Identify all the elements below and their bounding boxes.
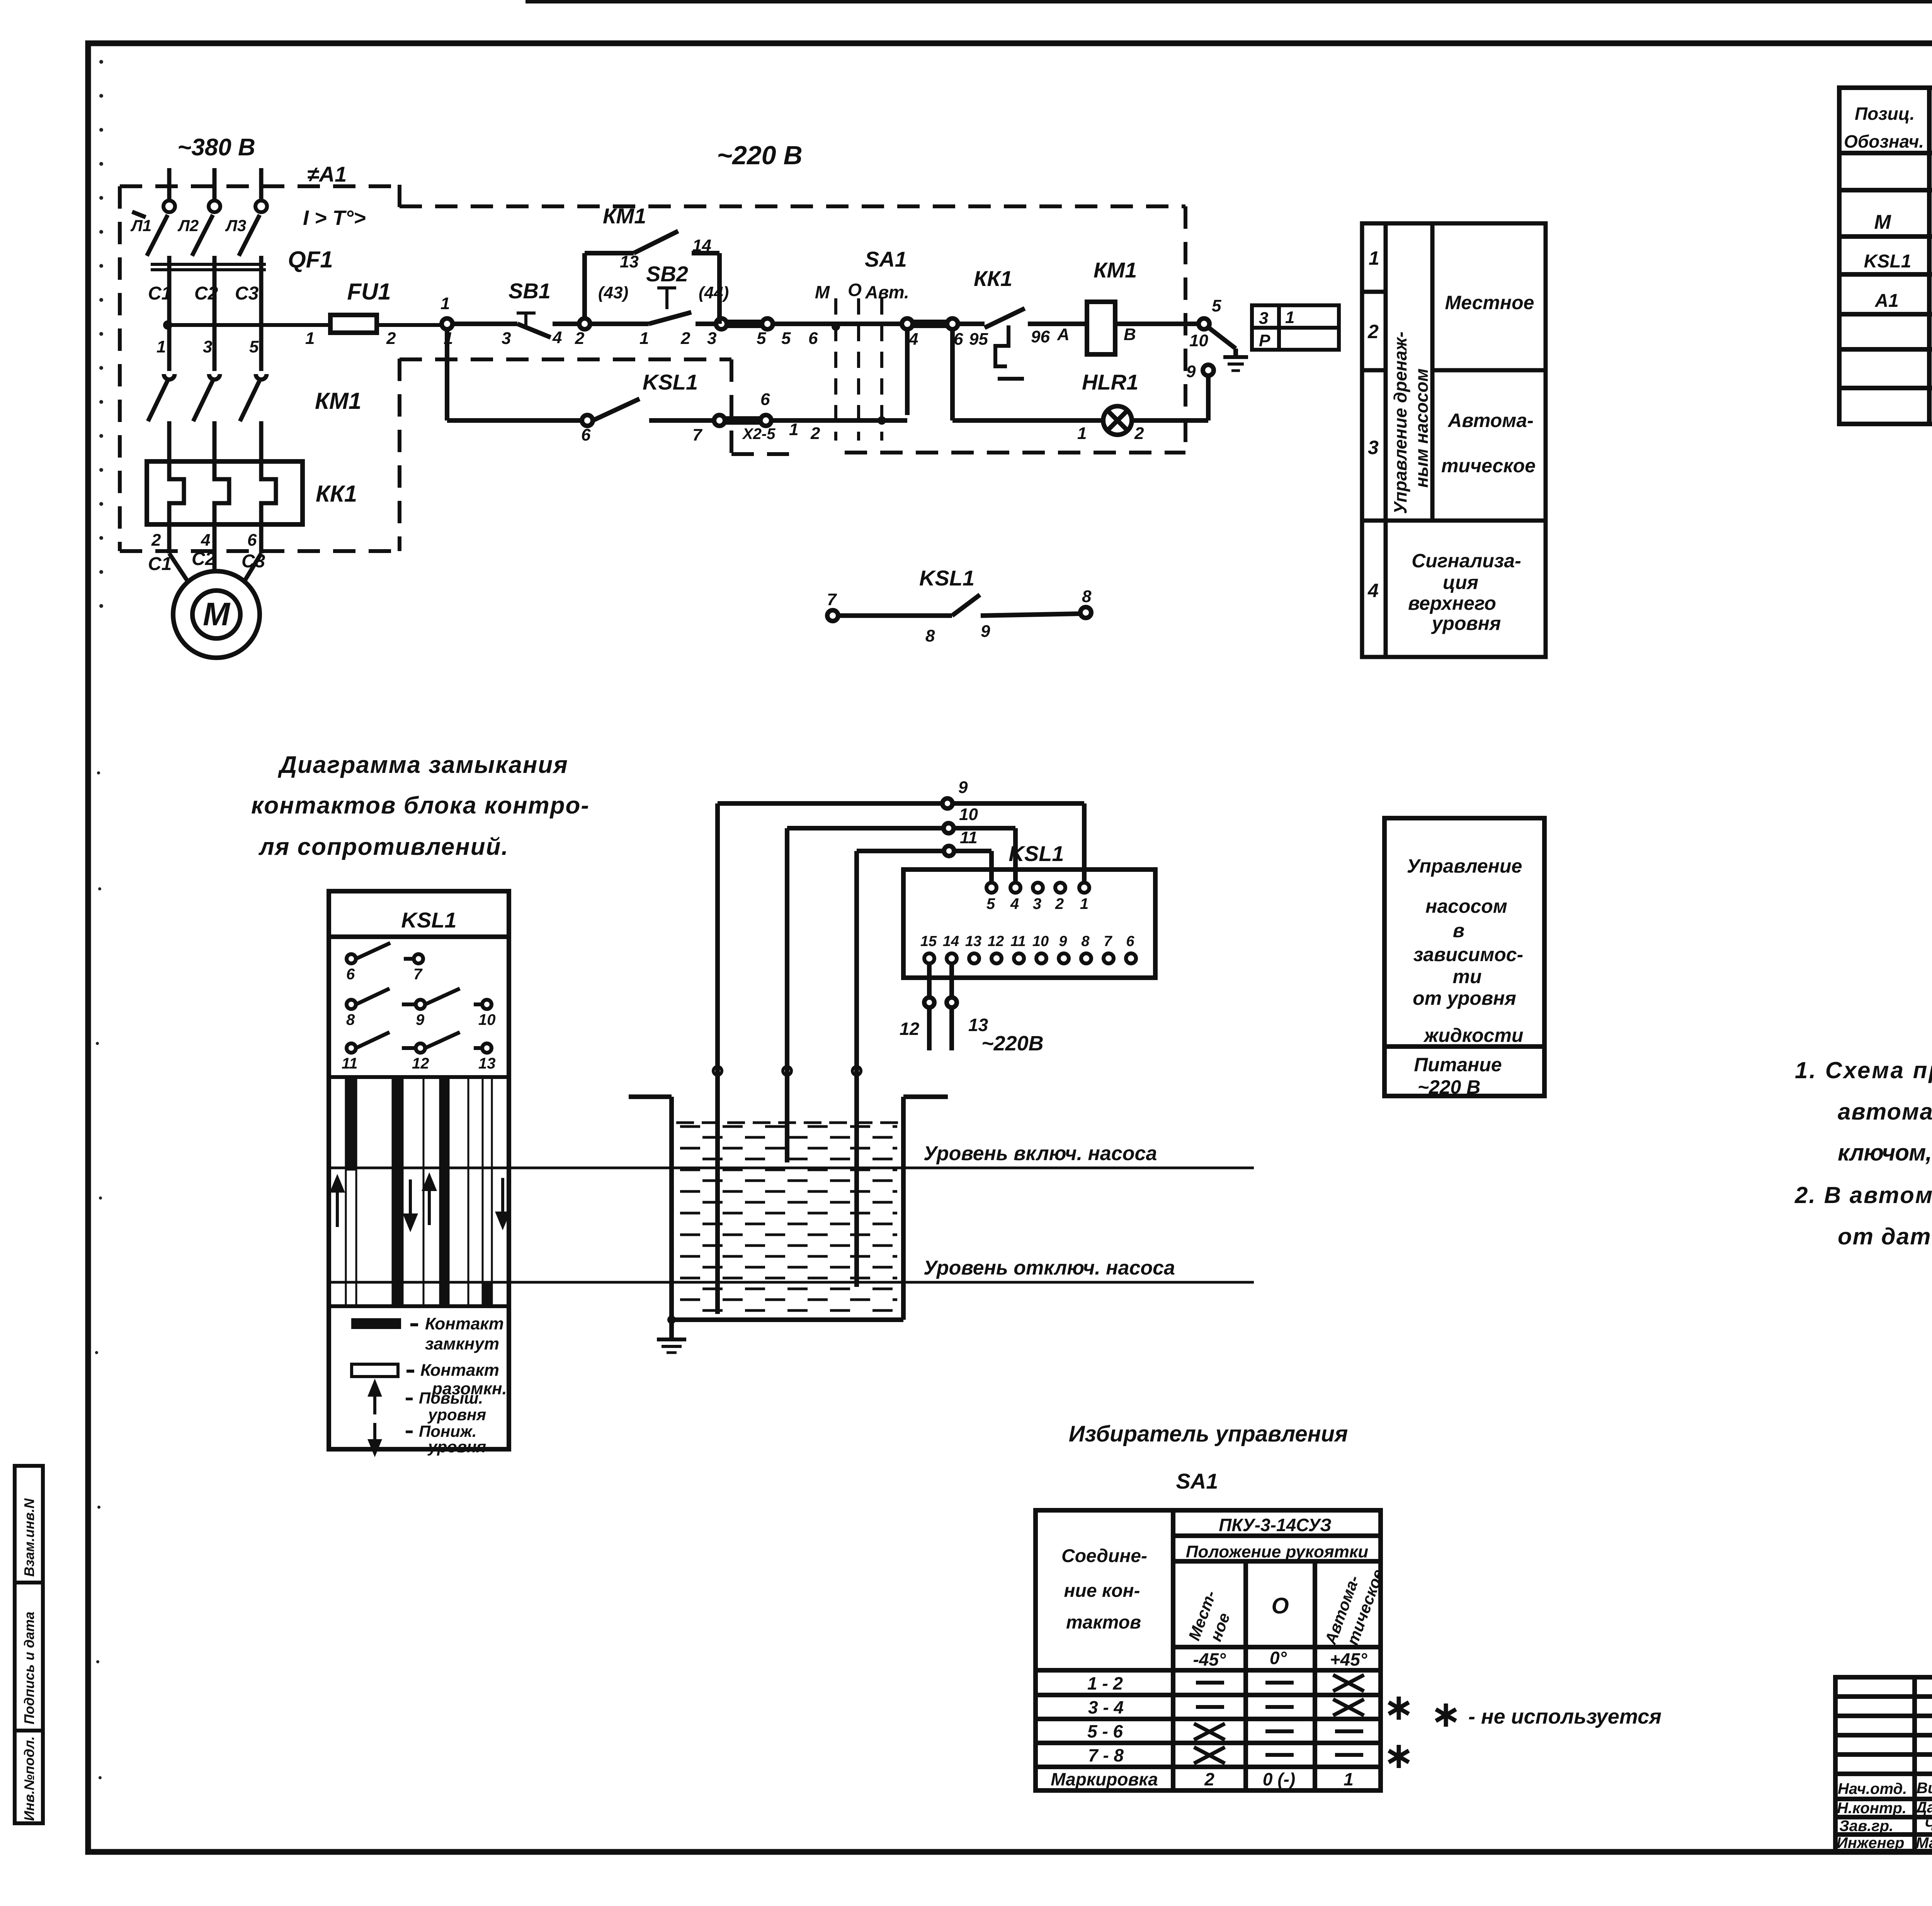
- svg-text:5: 5: [986, 895, 995, 912]
- svg-text:4: 4: [908, 330, 918, 349]
- svg-text:5: 5: [757, 329, 766, 348]
- svg-text:В: В: [1124, 325, 1136, 344]
- svg-text:М: М: [203, 596, 231, 632]
- svg-text:О: О: [848, 280, 862, 300]
- svg-text:13: 13: [620, 252, 639, 271]
- svg-text:ция: ция: [1443, 572, 1478, 593]
- svg-text:зависимос-: зависимос-: [1413, 944, 1523, 965]
- svg-text:96: 96: [1031, 327, 1050, 346]
- svg-text:1. Схема предусматривает уп: 1. Схема предусматривает управление насо…: [1795, 1057, 1932, 1083]
- svg-text:2: 2: [151, 531, 161, 550]
- svg-text:- не используется: - не используется: [1468, 1705, 1662, 1728]
- svg-text:6: 6: [581, 425, 591, 444]
- svg-text:Инженер: Инженер: [1837, 1835, 1904, 1852]
- svg-text:11: 11: [1010, 933, 1026, 950]
- svg-text:1: 1: [1080, 895, 1088, 912]
- svg-text:1: 1: [789, 420, 798, 439]
- svg-text:Управление: Управление: [1407, 855, 1522, 877]
- svg-text:ние кон-: ние кон-: [1064, 1581, 1140, 1601]
- svg-text:2: 2: [1367, 321, 1379, 342]
- svg-text:5: 5: [781, 329, 791, 348]
- svg-text:1: 1: [1077, 424, 1087, 443]
- svg-text:Чаруева: Чаруева: [1924, 1817, 1932, 1834]
- svg-text:3: 3: [1033, 895, 1041, 912]
- svg-text:от датчика уровня KSL1.: от датчика уровня KSL1.: [1838, 1224, 1932, 1249]
- svg-text:10: 10: [478, 1011, 496, 1028]
- svg-text:0°: 0°: [1270, 1648, 1287, 1668]
- svg-text:Подпись и дата: Подпись и дата: [21, 1612, 37, 1724]
- svg-text:контактов блока контро-: контактов блока контро-: [251, 792, 590, 819]
- svg-text:3: 3: [707, 329, 716, 348]
- svg-text:Уровень включ. насоса: Уровень включ. насоса: [923, 1142, 1157, 1165]
- svg-text:HLR1: HLR1: [1082, 370, 1138, 394]
- svg-text:Л2: Л2: [177, 216, 199, 235]
- svg-text:95: 95: [969, 330, 988, 349]
- svg-text:KSL1: KSL1: [1009, 841, 1064, 866]
- svg-text:4: 4: [552, 328, 562, 347]
- svg-text:Сигнализа-: Сигнализа-: [1412, 550, 1521, 572]
- svg-text:13: 13: [478, 1055, 496, 1072]
- svg-text:Избиратель управления: Избиратель управления: [1069, 1421, 1348, 1447]
- svg-text:I > T°>: I > T°>: [303, 206, 366, 230]
- svg-text:4: 4: [201, 531, 210, 550]
- svg-text:КМ1: КМ1: [315, 388, 361, 414]
- svg-text:ключом, установленным на ящи: ключом, установленным на ящике управлени…: [1838, 1140, 1932, 1166]
- svg-text:(43): (43): [598, 283, 628, 302]
- svg-text:-45°: -45°: [1193, 1649, 1226, 1669]
- svg-text:Местное: Местное: [1445, 292, 1534, 313]
- svg-text:1: 1: [1344, 1769, 1354, 1789]
- svg-text:5 - 6: 5 - 6: [1087, 1721, 1123, 1741]
- svg-text:С1: С1: [148, 554, 172, 574]
- svg-text:насосом: насосом: [1425, 895, 1507, 917]
- svg-text:9: 9: [1059, 933, 1067, 950]
- svg-text:ным насосом: ным насосом: [1412, 368, 1432, 488]
- svg-text:1: 1: [444, 329, 453, 348]
- svg-text:(44): (44): [699, 283, 729, 302]
- svg-text:КМ1: КМ1: [1094, 258, 1137, 282]
- svg-text:ля сопротивлений.: ля сопротивлений.: [258, 834, 509, 860]
- svg-text:4: 4: [1010, 895, 1019, 912]
- svg-text:≠А1: ≠А1: [307, 162, 347, 186]
- svg-text:2: 2: [1134, 424, 1144, 443]
- svg-text:9: 9: [981, 622, 990, 641]
- svg-text:С3: С3: [235, 283, 259, 304]
- svg-text:от уровня: от уровня: [1413, 987, 1516, 1009]
- svg-text:А: А: [1057, 325, 1070, 344]
- svg-text:3: 3: [502, 329, 511, 348]
- svg-text:уровня: уровня: [427, 1406, 486, 1424]
- svg-text:тактов: тактов: [1066, 1612, 1141, 1633]
- svg-text:Н.контр.: Н.контр.: [1837, 1800, 1906, 1817]
- svg-text:+45°: +45°: [1330, 1649, 1367, 1669]
- svg-text:2: 2: [1055, 895, 1064, 912]
- svg-text:9: 9: [1186, 362, 1196, 381]
- svg-text:6: 6: [954, 330, 963, 349]
- svg-text:3: 3: [1368, 437, 1379, 458]
- svg-text:Магулария: Магулария: [1916, 1835, 1932, 1852]
- svg-text:верхнего: верхнего: [1408, 592, 1496, 614]
- svg-text:ПКУ-3-14СУЗ: ПКУ-3-14СУЗ: [1219, 1515, 1331, 1535]
- svg-text:Положение рукоятки: Положение рукоятки: [1186, 1542, 1368, 1561]
- svg-text:7: 7: [827, 590, 837, 609]
- svg-text:0 (-): 0 (-): [1263, 1769, 1295, 1789]
- svg-text:Нач.отд.: Нач.отд.: [1838, 1780, 1907, 1797]
- svg-text:8: 8: [346, 1011, 355, 1028]
- svg-text:Взам.инв.N: Взам.инв.N: [21, 1498, 37, 1577]
- svg-text:SB2: SB2: [646, 262, 688, 286]
- svg-text:14: 14: [943, 933, 959, 950]
- svg-text:7: 7: [413, 966, 423, 983]
- svg-text:~220 В: ~220 В: [1418, 1076, 1481, 1098]
- svg-text:1: 1: [305, 329, 315, 348]
- svg-text:КМ1: КМ1: [603, 204, 646, 228]
- svg-text:KSL1: KSL1: [643, 370, 698, 394]
- svg-text:12: 12: [412, 1055, 429, 1072]
- svg-text:Питание: Питание: [1414, 1054, 1502, 1076]
- svg-text:14: 14: [692, 236, 711, 255]
- svg-text:Повыш.: Повыш.: [419, 1389, 483, 1407]
- svg-text:жидкости: жидкости: [1423, 1024, 1524, 1046]
- svg-text:Вишневский: Вишневский: [1917, 1780, 1932, 1797]
- svg-text:~220 В: ~220 В: [717, 141, 802, 170]
- svg-text:С2: С2: [194, 283, 218, 304]
- svg-text:2: 2: [680, 329, 690, 348]
- svg-text:уровня: уровня: [1431, 613, 1501, 634]
- svg-text:2: 2: [1204, 1769, 1214, 1789]
- svg-text:KSL1: KSL1: [401, 908, 456, 932]
- svg-text:X2-5: X2-5: [742, 425, 776, 442]
- svg-text:4: 4: [1367, 580, 1379, 601]
- svg-text:С3: С3: [241, 551, 265, 572]
- svg-text:11: 11: [342, 1055, 358, 1072]
- svg-text:~220В: ~220В: [981, 1032, 1044, 1055]
- svg-text:1: 1: [639, 329, 649, 348]
- svg-text:6: 6: [346, 966, 355, 983]
- svg-text:КК1: КК1: [974, 266, 1012, 291]
- svg-text:ти: ти: [1453, 966, 1482, 987]
- svg-text:в: в: [1453, 920, 1464, 941]
- svg-text:Л3: Л3: [225, 216, 246, 235]
- svg-text:2: 2: [575, 329, 585, 348]
- svg-text:Контакт: Контакт: [420, 1361, 499, 1380]
- svg-text:KSL1: KSL1: [1864, 251, 1912, 272]
- svg-text:Уровень отключ. насоса: Уровень отключ. насоса: [923, 1257, 1175, 1279]
- svg-text:тическое: тическое: [1441, 455, 1536, 476]
- svg-text:6: 6: [760, 390, 770, 409]
- svg-text:Зав.гр.: Зав.гр.: [1839, 1818, 1893, 1835]
- svg-text:7: 7: [692, 425, 703, 444]
- svg-text:SA1: SA1: [1176, 1469, 1218, 1493]
- svg-text:Соедине-: Соедине-: [1061, 1546, 1147, 1566]
- svg-text:12: 12: [900, 1019, 920, 1039]
- svg-text:1: 1: [1285, 308, 1294, 327]
- svg-text:Р: Р: [1259, 331, 1270, 350]
- svg-text:С1: С1: [148, 283, 172, 304]
- svg-text:~380 В: ~380 В: [177, 134, 255, 161]
- svg-text:7: 7: [1104, 933, 1112, 950]
- svg-text:А1: А1: [1874, 291, 1898, 311]
- svg-text:FU1: FU1: [347, 279, 391, 305]
- svg-text:1: 1: [440, 294, 450, 313]
- svg-text:13: 13: [965, 933, 981, 950]
- svg-text:3 - 4: 3 - 4: [1088, 1697, 1124, 1717]
- svg-text:10: 10: [959, 805, 978, 824]
- svg-text:Давлианидзе: Давлианидзе: [1915, 1799, 1932, 1816]
- svg-text:6: 6: [247, 531, 257, 550]
- svg-text:6: 6: [808, 329, 818, 348]
- svg-text:Позиц.: Позиц.: [1855, 104, 1915, 124]
- svg-text:уровня: уровня: [427, 1438, 486, 1456]
- svg-text:2: 2: [810, 424, 820, 443]
- svg-text:9: 9: [416, 1011, 425, 1028]
- svg-text:Л1: Л1: [130, 216, 151, 235]
- svg-text:Автома-: Автома-: [1447, 410, 1533, 431]
- svg-text:Инв.№подл.: Инв.№подл.: [21, 1736, 37, 1821]
- svg-text:1 - 2: 1 - 2: [1087, 1673, 1123, 1693]
- svg-text:автоматическом режимах. Выбор: автоматическом режимах. Выбор режимов пр…: [1838, 1099, 1932, 1125]
- svg-text:1: 1: [156, 337, 166, 356]
- svg-text:8: 8: [925, 626, 935, 645]
- svg-text:5: 5: [249, 337, 259, 356]
- svg-text:9: 9: [958, 778, 968, 797]
- svg-text:2. В автоматическом режиме: 2. В автоматическом режиме включение нас…: [1794, 1182, 1932, 1208]
- svg-text:10: 10: [1189, 331, 1208, 350]
- svg-text:3: 3: [203, 337, 212, 356]
- svg-text:1: 1: [1369, 247, 1379, 269]
- svg-text:Авт.: Авт.: [865, 282, 909, 302]
- svg-text:Маркировка: Маркировка: [1051, 1769, 1158, 1789]
- svg-text:11: 11: [960, 828, 978, 847]
- svg-text:КК1: КК1: [316, 481, 357, 507]
- svg-text:М: М: [1874, 211, 1891, 233]
- svg-text:8: 8: [1081, 933, 1090, 950]
- svg-text:5: 5: [1212, 296, 1221, 315]
- svg-text:SB1: SB1: [509, 279, 551, 303]
- svg-text:Диаграмма замыкания: Диаграмма замыкания: [277, 752, 568, 778]
- svg-text:О: О: [1271, 1593, 1289, 1618]
- svg-text:6: 6: [1126, 933, 1134, 950]
- svg-text:SA1: SA1: [865, 247, 907, 271]
- svg-text:QF1: QF1: [288, 247, 333, 272]
- svg-text:замкнут: замкнут: [425, 1334, 499, 1353]
- svg-text:10: 10: [1032, 933, 1049, 950]
- svg-text:М: М: [815, 282, 830, 302]
- svg-text:KSL1: KSL1: [919, 566, 975, 590]
- svg-text:7 - 8: 7 - 8: [1088, 1745, 1124, 1765]
- svg-text:15: 15: [920, 933, 937, 950]
- svg-text:12: 12: [988, 933, 1004, 950]
- svg-text:Управление дренаж-: Управление дренаж-: [1390, 332, 1410, 514]
- svg-text:2: 2: [386, 329, 396, 348]
- svg-text:8: 8: [1082, 587, 1092, 606]
- svg-text:3: 3: [1259, 309, 1268, 328]
- svg-text:Контакт: Контакт: [425, 1314, 504, 1333]
- svg-text:Обознач.: Обознач.: [1844, 131, 1924, 151]
